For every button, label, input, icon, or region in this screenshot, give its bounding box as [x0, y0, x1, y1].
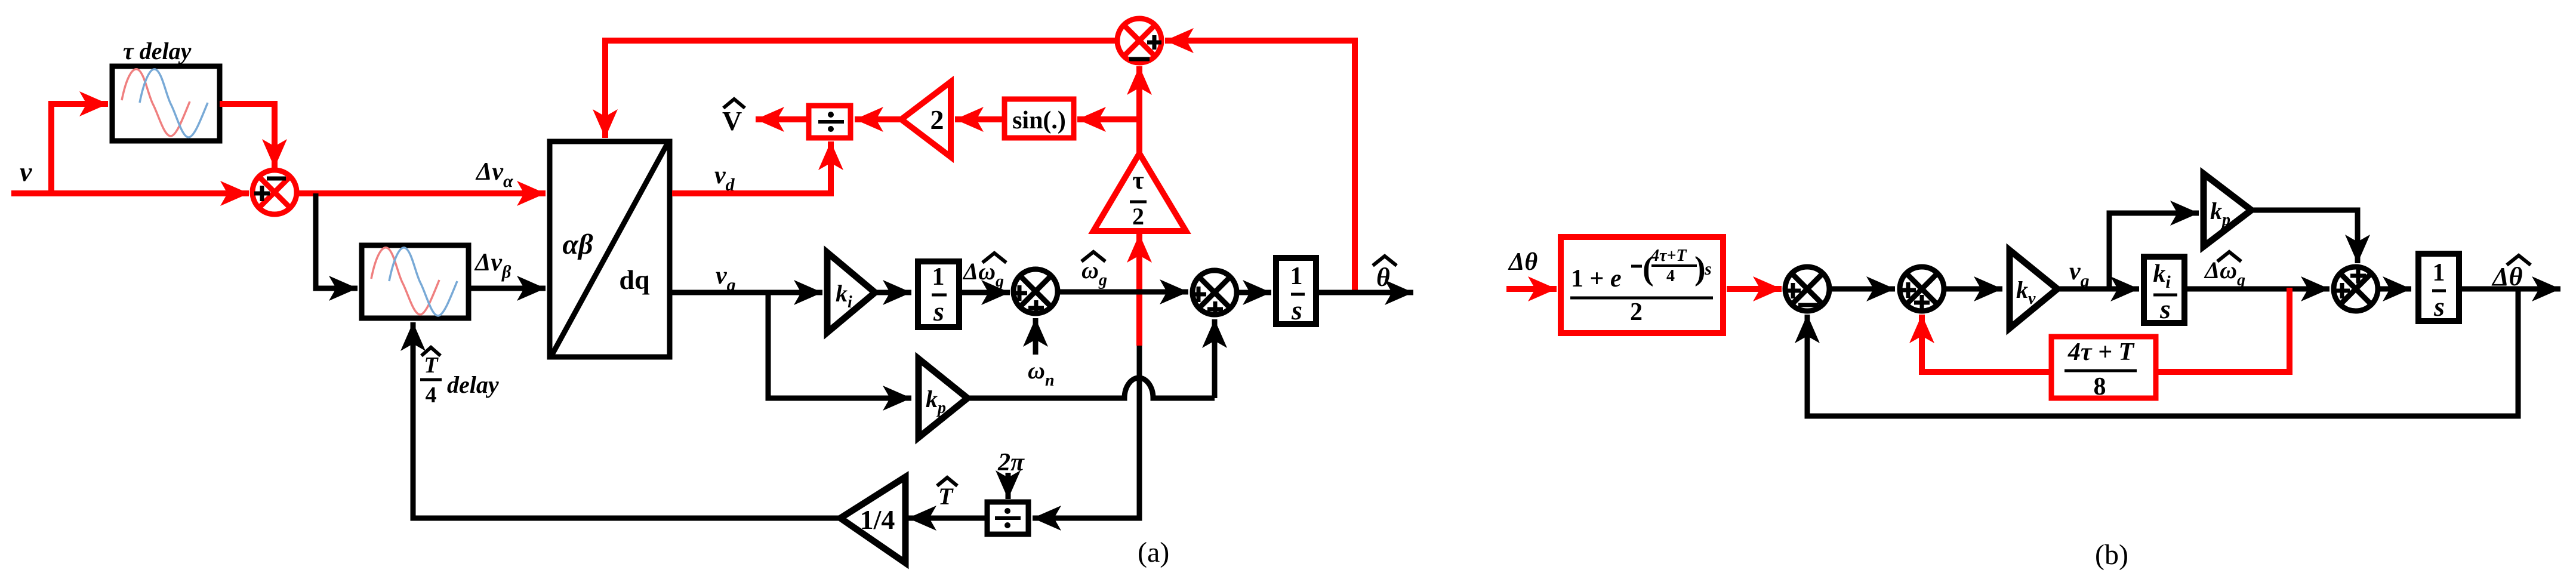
svg-text:4τ + T: 4τ + T [2067, 338, 2136, 366]
DIAGRAM-A [11, 19, 1413, 568]
svg-text:τ delay: τ delay [123, 38, 192, 64]
wire branch v up into tau-delay block [51, 104, 108, 196]
svg-text:1/4: 1/4 [860, 504, 895, 535]
label T-hat [937, 478, 957, 510]
block integrator I1 [918, 261, 959, 327]
wire tau/2 output up into multiplier M1 [1136, 66, 1142, 153]
svg-text:delay: delay [447, 371, 499, 398]
wire kp output down into summer SB3 [2251, 210, 2358, 263]
svg-text:1: 1 [2433, 259, 2445, 287]
svg-text:(a): (a) [1138, 537, 1169, 568]
wire branch down to T/4 delay block [316, 193, 358, 288]
label V hat [722, 99, 745, 136]
summing junction S2 [1012, 269, 1058, 316]
summing junction SB2 [1900, 267, 1944, 311]
svg-text:8: 8 [2094, 373, 2106, 401]
svg-text:): ) [1694, 250, 1706, 287]
wire SB2 to gain kv [1944, 287, 2002, 292]
block KIS ki/s [2144, 257, 2184, 324]
svg-text:2π: 2π [997, 449, 1025, 476]
svg-text:αβ: αβ [562, 229, 593, 260]
wire ki/s to summer SB3 [2187, 287, 2330, 292]
svg-text:θ: θ [1376, 263, 1390, 292]
wire branch from vertical to sin block [1077, 116, 1139, 122]
wire S3 to integrator I2 [1237, 290, 1271, 295]
label omega-g-hat [1081, 252, 1107, 289]
block integrator I2 [1276, 258, 1316, 325]
wire up into S3 from kp line [1212, 319, 1218, 398]
wire v input to summer S1 [11, 190, 249, 196]
gain triangle tau/2 [1093, 153, 1186, 231]
svg-text:s: s [1291, 295, 1302, 325]
svg-text:T: T [424, 353, 439, 378]
label Delta omega-g-hat [962, 253, 1006, 291]
wire vd output up into divider DIV1 [672, 141, 831, 193]
block alphabeta-dq U1 [550, 141, 670, 357]
wire feedback from theta-hat up into M1 [1165, 41, 1355, 292]
sine blue in B2 [389, 248, 457, 316]
wire 1/4 output left and up into B2 [413, 322, 840, 518]
wire M1 output left and down into alphabeta block [605, 41, 1115, 138]
wire sin block to gain2 [955, 116, 1002, 122]
svg-text:sin(.): sin(.) [1012, 107, 1066, 134]
svg-text:4τ+T: 4τ+T [1650, 247, 1687, 265]
wire red tap down from Delta-omega line to block H2 [2157, 288, 2290, 372]
wire S1 to alphabeta block [297, 190, 546, 196]
svg-text:Δθ: Δθ [2491, 262, 2523, 291]
svg-text:2: 2 [1132, 203, 1144, 230]
wire SB3 to integrator I3 [2378, 287, 2411, 292]
label Delta omega-g-hat b [2204, 252, 2245, 289]
block sin [1004, 99, 1074, 138]
svg-text:V: V [722, 106, 742, 136]
block T/4-delay B2 [362, 245, 469, 318]
svg-text:(b): (b) [2095, 539, 2128, 571]
gain triangle KV [2010, 250, 2057, 328]
svg-text:Δθ: Δθ [1508, 248, 1537, 276]
svg-text:dq: dq [619, 264, 650, 295]
svg-text:2: 2 [930, 104, 944, 135]
svg-text:s: s [1704, 259, 1712, 279]
svg-text:1: 1 [1290, 263, 1303, 290]
wire tau-delay output down into summer S1 [220, 104, 275, 168]
wire DIV1 to Vhat output [756, 116, 808, 122]
wire omega-g-hat tap up into tau/2 [1136, 234, 1142, 346]
wire H2 output left and up into SB2 [1922, 315, 2049, 372]
label theta-hat [1373, 256, 1397, 292]
wire kv to block ki/s [2057, 287, 2139, 292]
svg-text:T: T [938, 483, 954, 510]
sine red in B2 [371, 248, 439, 315]
sine red in B1 [122, 69, 190, 136]
wire S2 to summer S3 [1058, 289, 1188, 295]
gain triangle KP1 [919, 359, 967, 438]
sine blue in B1 [140, 69, 208, 137]
wire H1 to summer SB1 [1727, 286, 1782, 292]
svg-text:4: 4 [1666, 267, 1675, 285]
multiplier M1 [1117, 19, 1161, 63]
block integrator I3 [2418, 254, 2459, 322]
wire KP1 output with hop to summer S3 [967, 378, 1215, 398]
summing junction SB1 [1785, 267, 1829, 311]
wire Delta-theta input into block H1 [1506, 286, 1557, 292]
block H1 transfer function [1561, 237, 1723, 333]
wire vq from alphabeta to gain ki [672, 290, 822, 295]
wire branch up to gain kp [2109, 213, 2199, 289]
wire feedback from output down and into SB1 [1807, 289, 2518, 416]
gain triangle KI1 [827, 252, 875, 332]
svg-text:1: 1 [932, 263, 945, 291]
svg-text:4: 4 [426, 383, 437, 408]
gain triangle G2 value 2 [901, 82, 951, 157]
wire B2 to alphabeta block [469, 286, 546, 291]
svg-text:s: s [2433, 291, 2445, 322]
wire KI1 to integrator I1 [875, 290, 911, 295]
label T/4 delay [420, 347, 499, 408]
gain triangle G14 value 1/4 [840, 477, 905, 563]
svg-text:s: s [933, 296, 944, 327]
block tau-delay B1 [112, 66, 220, 141]
wire gain2 to DIV1 [855, 116, 901, 122]
block divider DIV1 [809, 106, 851, 138]
gain triangle KP2 [2204, 174, 2251, 247]
svg-text:τ: τ [1132, 167, 1144, 195]
svg-text:2: 2 [1630, 298, 1643, 326]
wire I1 to summer S2 [962, 290, 1010, 295]
wire vertical down from omega-g-hat line to divider DIV2 [1033, 346, 1139, 518]
label Delta-theta-hat [2491, 255, 2531, 291]
wire 2pi into DIV2 [1006, 473, 1011, 499]
block divider DIV2 [987, 502, 1028, 534]
wire Delta-theta-hat output [2461, 287, 2560, 292]
svg-text:1 + e: 1 + e [1571, 265, 1622, 292]
wire theta-hat output [1318, 290, 1413, 295]
summing junction S3 [1191, 270, 1237, 317]
DIAGRAM-B [1506, 174, 2560, 571]
summing junction SB3 [2334, 267, 2378, 311]
wire DIV2 to gain 1/4 [908, 516, 985, 521]
wire branch vq down to gain kp [768, 292, 911, 398]
block H2 4tau+T/8 [2051, 337, 2156, 401]
wire omega-n input into S2 [1033, 318, 1039, 355]
svg-text:v: v [20, 156, 32, 187]
summing junction S1 [252, 170, 297, 214]
wire SB1 to summer SB2 [1829, 287, 1895, 292]
svg-text:s: s [2159, 294, 2171, 324]
